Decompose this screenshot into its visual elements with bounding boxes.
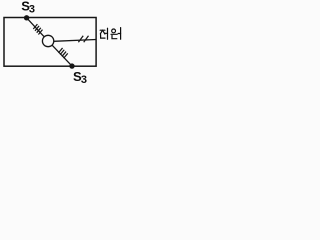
svg-text:3: 3 [29,3,35,15]
svg-text:3: 3 [81,74,87,86]
